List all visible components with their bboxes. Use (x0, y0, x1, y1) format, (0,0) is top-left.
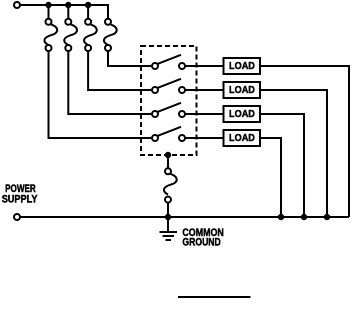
svg-text:LOAD: LOAD (229, 61, 255, 72)
wire common breaker to bus (167, 203, 169, 217)
switch S2 (152, 79, 185, 93)
load 4 box (224, 130, 261, 146)
wire breaker CB4 to switch S1 (108, 51, 151, 66)
switch S4 (152, 127, 185, 141)
wire switch S1 to load 1 (185, 65, 223, 67)
wire load 1 return (261, 66, 349, 217)
wire switch S3 to load 3 (185, 113, 223, 115)
power supply bottom terminal (14, 214, 20, 220)
load 1 box (224, 58, 261, 74)
circuit breaker CB5 common (164, 168, 177, 202)
wire column 4 drop (107, 5, 108, 19)
label POWER SUPPLY (2, 183, 38, 205)
wire column 2 drop (67, 5, 69, 19)
power supply top terminal (14, 2, 20, 8)
node junction ground tap (165, 214, 171, 220)
wire breaker CB1 to switch S4 (49, 51, 152, 138)
load 2 box (224, 82, 261, 98)
wire switch S2 to load 2 (185, 89, 223, 91)
wire column 1 drop (48, 5, 50, 19)
switch box dashed enclosure (141, 46, 197, 155)
node junction bottom bus 1 (278, 214, 284, 220)
circuit breaker CB1 (44, 19, 57, 51)
wire common drop (167, 155, 169, 168)
switch S3 (152, 103, 185, 117)
caption rule (178, 296, 251, 298)
node junction bottom bus 2 (301, 214, 307, 220)
svg-text:LOAD: LOAD (229, 109, 255, 120)
svg-text:LOAD: LOAD (229, 133, 255, 144)
node junction top bus 1 (45, 2, 51, 8)
node junction top bus 2 (65, 2, 71, 8)
svg-text:LOAD: LOAD (229, 85, 255, 96)
wire switch S4 to load 4 (185, 137, 223, 139)
circuit breaker CB3 (84, 19, 97, 51)
wire top bus (20, 4, 108, 6)
wire load 3 return (261, 114, 304, 217)
circuit breaker CB2 (64, 19, 77, 51)
svg-text:SUPPLY: SUPPLY (2, 193, 38, 205)
wire load 2 return (261, 90, 327, 217)
circuit breaker CB4 (104, 19, 117, 51)
svg-text:GROUND: GROUND (182, 236, 221, 248)
wire breaker CB2 to switch S3 (68, 51, 151, 114)
wire breaker CB3 to switch S2 (88, 51, 151, 90)
wire column 3 drop (87, 5, 89, 19)
node junction top bus 3 (85, 2, 91, 8)
wire load 4 return (261, 138, 281, 217)
label COMMON GROUND (182, 227, 223, 248)
load 3 box (224, 106, 261, 122)
node junction bottom bus 3 (324, 214, 330, 220)
node switch common on box edge (165, 152, 171, 158)
switch S1 (152, 55, 185, 69)
wire bottom bus (20, 216, 349, 218)
ground (160, 217, 178, 240)
